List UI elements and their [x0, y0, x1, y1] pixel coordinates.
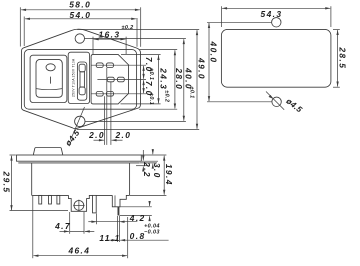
svg-text:±0.2: ±0.2	[121, 25, 133, 31]
svg-text:16.3: 16.3	[99, 29, 121, 39]
svg-text:2.0: 2.0	[114, 130, 131, 140]
pin middle blade	[107, 77, 114, 82]
fuse body	[80, 72, 84, 87]
IEC inlet recess	[91, 54, 128, 104]
body left edge	[31, 163, 33, 196]
dim 0.8 ext lines	[117, 216, 119, 242]
dim 54.0	[23, 17, 25, 47]
dim 19.4	[163, 156, 165, 195]
ext line peak for 49.0	[77, 29, 199, 31]
dim 4.7 ext lines	[69, 212, 71, 234]
fuse cap top	[79, 64, 85, 72]
ext line top hole	[207, 21, 271, 23]
dim 40.0 view2	[208, 23, 210, 101]
rocker O symbol	[46, 64, 55, 71]
svg-text:ø4.5: ø4.5	[284, 97, 304, 115]
inlet step inner line	[114, 195, 116, 206]
svg-text:4.7: 4.7	[54, 221, 71, 231]
svg-text:±0.1: ±0.1	[148, 68, 154, 80]
ext body bottom right	[130, 194, 166, 196]
pin top centerline	[91, 64, 116, 66]
dim 46.4 ext lines	[32, 196, 34, 258]
dim 29.5 ext top	[10, 154, 16, 156]
terminal tab 1	[39, 195, 42, 204]
body rounded rect	[24, 50, 136, 110]
terminal tab 2	[49, 195, 52, 204]
rocker crease	[36, 89, 62, 90]
switch outer bezel	[30, 55, 67, 102]
ext shoulder for 2.2	[136, 165, 148, 167]
dim 28.0	[174, 50, 176, 108]
svg-text:250V T10A 250V T10A: 250V T10A 250V T10A	[72, 58, 76, 97]
pin middle centerline	[97, 79, 127, 81]
inlet recess step	[112, 195, 129, 206]
gasket line	[18, 162, 139, 164]
pin top blade	[96, 63, 103, 68]
svg-text:28.0: 28.0	[174, 67, 184, 90]
pin bottom ext line	[117, 93, 146, 95]
dim 4.2	[149, 201, 151, 206]
bottom edge segment right	[96, 194, 112, 196]
ground screw block	[69, 195, 93, 211]
svg-text:58.0: 58.0	[69, 0, 91, 10]
body bottom edge	[32, 194, 69, 196]
flange plate	[17, 155, 142, 161]
svg-text:29.5: 29.5	[2, 171, 12, 194]
pin tab B (thick)	[118, 207, 120, 216]
fuse cap bottom	[79, 87, 85, 95]
body right edge	[129, 163, 131, 196]
dim 16.3	[92, 37, 94, 54]
svg-text:54.0: 54.0	[69, 10, 91, 20]
svg-text:±0.1: ±0.1	[188, 86, 194, 98]
svg-text:±0.1: ±0.1	[148, 93, 154, 105]
screw cross v	[78, 200, 80, 212]
ext line from bottom hole to 40.0 dim	[85, 120, 186, 122]
bottom mounting hole	[272, 97, 281, 106]
pin top ext line	[117, 64, 146, 66]
svg-text:2.0: 2.0	[88, 130, 105, 140]
svg-text:28.5: 28.5	[338, 46, 348, 69]
dim 4.7	[60, 230, 69, 232]
ext line bottom hole	[207, 101, 272, 103]
dim 28.5	[337, 30, 339, 86]
flange outline	[22, 29, 141, 129]
dim 40.0 view1	[183, 39, 185, 121]
pin thickness ext lines down	[104, 96, 106, 145]
top mounting hole	[272, 18, 281, 27]
cutout rounded rect	[221, 29, 331, 87]
pin bottom blade	[96, 92, 103, 97]
leader for hole dia 4.5	[72, 107, 85, 137]
terminal tab 3	[57, 195, 60, 204]
dim 0.8	[107, 239, 117, 241]
ext plate top right	[142, 154, 167, 156]
mounting hole top	[75, 34, 84, 43]
fuse drawer slot	[77, 62, 86, 100]
svg-text:3.0: 3.0	[152, 163, 162, 179]
switch rocker	[36, 59, 62, 97]
dim 49.0	[196, 30, 198, 129]
ext line bottom tip for 49.0	[77, 128, 200, 130]
dim 24.3	[158, 55, 160, 103]
dim 7.0 / 7.0 pins vertical	[143, 66, 145, 79]
ext inlet floor right	[120, 206, 151, 208]
dim 58.0	[19, 7, 21, 46]
ext plate bottom right	[142, 160, 159, 162]
pin middle ext line	[127, 79, 146, 81]
dim 3.0	[152, 149, 154, 154]
dim 2.0 right	[112, 139, 123, 141]
dim 11.1 ext line left	[96, 214, 98, 225]
dim 29.5 ext bottom	[10, 210, 69, 212]
rocker I symbol	[50, 77, 52, 84]
dim 11.1	[88, 221, 96, 223]
pin bottom centerline	[91, 93, 116, 95]
svg-text:11.1: 11.1	[99, 233, 120, 243]
ground screw head	[74, 201, 84, 211]
svg-text:24.3: 24.3	[158, 67, 168, 90]
leader dia 4.5 view2	[266, 92, 284, 110]
ext line from top hole to 40.0 dim	[85, 38, 186, 40]
dim 46.4	[34, 255, 128, 257]
terminal tab A	[93, 195, 97, 213]
fuse holder outline	[68, 52, 89, 103]
mounting boss bump	[33, 148, 63, 156]
svg-text:19.4: 19.4	[164, 164, 174, 186]
ext tab B end right	[120, 214, 152, 216]
dim 28.5 ext lines	[333, 28, 340, 30]
svg-text:40.0: 40.0	[209, 41, 219, 64]
screw cross h	[73, 204, 84, 206]
dim 2.0 left	[94, 139, 104, 141]
ext lines for 28.0	[139, 49, 177, 51]
ext lines for 24.3	[121, 53, 161, 55]
svg-text:±0.2: ±0.2	[164, 90, 170, 102]
svg-text:0.8: 0.8	[130, 231, 146, 241]
dim 2.2	[142, 150, 144, 160]
svg-text:ø4.5: ø4.5	[64, 128, 82, 148]
svg-text:46.4: 46.4	[67, 245, 90, 255]
dim 54.3	[222, 7, 330, 9]
dim 29.5	[11, 156, 13, 210]
dim 54.3 ext lines	[220, 6, 222, 27]
svg-text:54.3: 54.3	[261, 9, 283, 19]
mounting hole bottom	[75, 116, 85, 126]
svg-text:−0.03: −0.03	[144, 229, 160, 235]
svg-text:49.0: 49.0	[197, 57, 207, 80]
ext gasket right	[140, 162, 157, 164]
svg-text:2.2: 2.2	[142, 161, 152, 178]
